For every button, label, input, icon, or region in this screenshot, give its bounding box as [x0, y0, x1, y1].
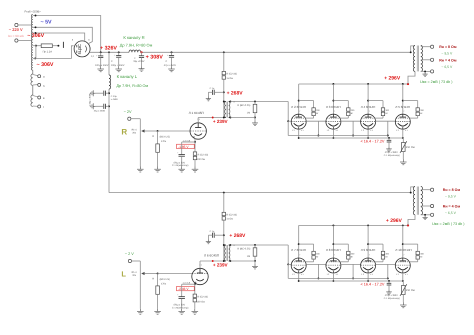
svg-text:-1,85 V: -1,85 V [178, 145, 189, 149]
wire B+ rail +326V/+308V [90, 51, 411, 53]
svg-text:< 16.4 - 17.2V: < 16.4 - 17.2V [361, 140, 385, 144]
svg-text:7: 7 [403, 110, 404, 113]
terminal input R [128, 117, 141, 131]
potentiometer R volume 20k R [132, 128, 158, 166]
wire cathode drop &#1051; 3 [332, 129, 334, 139]
svg-text:4 1: 4 1 [336, 273, 339, 276]
svg-text:R (ВС-0.25): R (ВС-0.25) [237, 247, 250, 250]
terminal heater g [33, 105, 44, 109]
svg-text:1М: 1М [247, 255, 250, 258]
rheostat cathode 150 Om R [400, 138, 415, 159]
svg-text:C-1 М(неполяр): C-1 М(неполяр) [172, 164, 189, 167]
tube output &#1051; 10 6П14П [395, 225, 411, 275]
resistor R anode supply dropper R [222, 52, 237, 101]
interstage transformer R [223, 101, 236, 119]
resistor screen grid 300 Ом &#1051; 9 [368, 244, 390, 262]
tube output &#1051; 2 6П14П [291, 84, 306, 132]
svg-text:150 Ом: 150 Ом [406, 289, 415, 292]
svg-text:К каналу R: К каналу R [123, 35, 144, 40]
wire secondary tap 4 Om R [421, 59, 431, 61]
svg-text:C 1µ: C 1µ [210, 87, 215, 90]
svg-text:~ 2V: ~ 2V [124, 110, 132, 114]
wire grid chain after &#1051; 8 [341, 264, 361, 279]
wire HV winding lower end loop to rectifier anode 2 [33, 44, 74, 59]
terminal mains input ~220V lower [15, 39, 32, 42]
terminal output common L [431, 213, 434, 216]
terminal output common R [431, 70, 434, 73]
ground cathode resistor L [192, 309, 199, 315]
svg-text:-2,46 V: -2,46 V [178, 287, 189, 291]
ground rheostat R [400, 159, 407, 165]
svg-text:Вт: Вт [420, 256, 422, 259]
svg-text:R1-4: R1-4 [132, 128, 138, 131]
capacitor C5 33u 450V L filter [89, 93, 110, 113]
capacitor C3 47u 450V [164, 52, 177, 72]
svg-text:1 3: 1 3 [396, 273, 399, 276]
wire secondary tap 8 Om L [421, 189, 431, 191]
svg-text:1 3: 1 3 [292, 273, 295, 276]
svg-text:+ 296V: + 296V [386, 218, 403, 224]
label cap value R [172, 161, 189, 167]
svg-text:470µ х 350V: 470µ х 350V [385, 151, 398, 154]
svg-text:C 33µ: C 33µ [111, 95, 118, 98]
wire cathode drop &#1051; 8 [332, 273, 334, 282]
ground output cathode cap R [386, 147, 392, 152]
svg-text:100 Ом: 100 Ом [197, 158, 206, 161]
svg-text:R1-4: R1-4 [132, 271, 138, 274]
svg-text:C-1 М(неполяр): C-1 М(неполяр) [384, 154, 400, 157]
ground grid leak 1M L [252, 264, 258, 269]
capacitor C4 33u 450V L filter [91, 90, 118, 101]
resistor cathode 100 Om R [193, 142, 208, 167]
resistor screen grid 300 Ом &#1051; 8 [333, 244, 355, 262]
output transformer R [408, 46, 422, 85]
svg-text:4 1: 4 1 [301, 273, 304, 276]
svg-text:х 450В: х 450В [111, 98, 118, 101]
capacitor C1 100u 450V [95, 52, 109, 72]
wire cathode drop &#1051; 9 [367, 273, 369, 282]
wire grid chain after &#1051; 2 [306, 121, 326, 136]
svg-text:+ 268V: + 268V [229, 233, 246, 239]
svg-text:Л 6 6С45П: Л 6 6С45П [204, 254, 219, 258]
svg-text:+ 239V: + 239V [213, 263, 229, 268]
node +268V with decoupling cap L [208, 230, 224, 240]
svg-text:C 1µ: C 1µ [210, 230, 215, 233]
svg-text:Вт: Вт [420, 112, 422, 115]
capacitor cathode bypass 470u 50V R [177, 142, 195, 167]
wire grid bus L [288, 277, 388, 279]
svg-text:1 3: 1 3 [292, 129, 295, 132]
ground 470k R [154, 167, 161, 173]
wire grid chain after &#1051; 4 [376, 121, 396, 136]
wire driver cathode L [183, 282, 196, 286]
resistor cathode 100 Om L [193, 284, 208, 309]
wire secondary tap common R [421, 70, 431, 72]
svg-text:1 3: 1 3 [327, 273, 330, 276]
resistor R anode supply dropper L [222, 193, 237, 245]
svg-text:Л 7 6П14П: Л 7 6П14П [291, 248, 306, 252]
svg-text:Л 9 6П14П: Л 9 6П14П [361, 248, 376, 252]
wire cathode drop &#1051; 2 [298, 129, 300, 139]
wire secondary tap common L [421, 214, 431, 216]
svg-text:Ртаб <350В>: Ртаб <350В> [25, 11, 42, 14]
svg-text:4 1: 4 1 [405, 129, 408, 132]
resistor R grid leak 470k R [152, 131, 170, 167]
ground decoupling cap L [206, 239, 211, 243]
wire driver plate to interstage L [200, 260, 224, 268]
svg-text:7: 7 [299, 254, 300, 257]
wire interstage secondary top to output grids R [230, 101, 291, 136]
tube driver &#1051; 1 6С45П [189, 111, 207, 139]
choke Dr2 7.9H L channel [109, 75, 111, 89]
ground grid leak 1M R [252, 121, 258, 126]
svg-text:+ 296V: + 296V [384, 75, 401, 81]
tube output &#1051; 3 6П14П [326, 84, 341, 132]
svg-text:г: г [43, 105, 44, 109]
wire grid chain after &#1051; 9 [376, 264, 396, 279]
svg-text:~ 220 V: ~ 220 V [9, 27, 23, 32]
svg-text:~ 9,5 V: ~ 9,5 V [441, 52, 453, 56]
wire driver plate to interstage R [198, 117, 224, 123]
node +268V with decoupling cap R [208, 87, 224, 97]
svg-text:+ 326V: + 326V [100, 45, 117, 51]
terminal heater a [33, 75, 45, 79]
svg-text:Вт: Вт [316, 112, 318, 115]
wire cathode bus L [299, 280, 404, 282]
capacitor cathode bypass 470u 50V L [177, 284, 195, 309]
terminal heater v [33, 96, 45, 100]
capacitor C2 100u 450V [111, 52, 125, 72]
wire branch to L channel choke [108, 52, 110, 192]
resistor screen grid 300 Ом &#1051; 3 [333, 101, 355, 119]
capacitor C6 33u 315V [133, 51, 145, 71]
ground cathode resistor R [192, 167, 199, 173]
svg-text:Л 2 6П14П: Л 2 6П14П [291, 105, 306, 109]
svg-text:+ 268V: + 268V [227, 90, 244, 96]
terminal output 8 Om R [431, 45, 434, 48]
tube output &#1051; 7 6П14П [291, 225, 306, 275]
svg-text:~ 2 V: ~ 2 V [125, 252, 134, 256]
svg-text:Л 10 6П14П: Л 10 6П14П [395, 248, 411, 252]
svg-text:470µ х 50V: 470µ х 50V [173, 304, 185, 307]
rectifier tube V1 5Ц3С [72, 38, 95, 58]
label cathode voltage box R [177, 144, 195, 149]
output transformer L [408, 187, 423, 226]
svg-text:7: 7 [369, 254, 370, 257]
svg-text:К каналу L: К каналу L [117, 74, 138, 79]
choke Dr1 7.9H R channel [129, 50, 141, 52]
terminal output 4 Om L [431, 204, 434, 207]
svg-text:4 1: 4 1 [370, 129, 373, 132]
svg-text:L: L [121, 269, 126, 278]
wire cathode drop &#1051; 4 [367, 129, 369, 139]
svg-text:R (С2-33): R (С2-33) [197, 296, 208, 299]
wire secondary tap 4 Om L [421, 205, 431, 207]
ground pot L [137, 309, 144, 315]
svg-text:2 1: 2 1 [197, 118, 200, 121]
resistor screen grid 300 Ом &#1051; 4 [368, 101, 390, 119]
ground output secondary L [422, 215, 427, 219]
svg-text:~ 5V: ~ 5V [41, 20, 53, 26]
wire L channel B+ bus [109, 192, 411, 194]
wire 5V winding top to rectifier filament / B+ node [33, 15, 101, 53]
terminal mains input ~220V upper [15, 23, 32, 26]
svg-text:R (С2-33): R (С2-33) [226, 213, 237, 216]
svg-text:Uвх = 2мВ ( 73 db ): Uвх = 2мВ ( 73 db ) [420, 80, 452, 84]
rheostat cathode 150 Om L [400, 281, 415, 302]
svg-text:1 3: 1 3 [327, 129, 330, 132]
terminal output 8 Om L [431, 188, 434, 191]
svg-text:+ 33µ х 450В: + 33µ х 450В [89, 93, 92, 107]
svg-text:7: 7 [369, 110, 370, 113]
svg-text:470µ х 350V: 470µ х 350V [385, 294, 398, 297]
wire interstage secondary top to output grids L [230, 244, 291, 278]
ground 470k L [154, 309, 161, 315]
wire grid input R [157, 130, 191, 132]
svg-text:Л 8 6П14П: Л 8 6П14П [326, 248, 341, 252]
wire grid chain after &#1051; 7 [306, 264, 326, 279]
svg-text:~ 306V: ~ 306V [37, 62, 54, 68]
wire HV winding upper end to rectifier anode [33, 32, 85, 41]
label cathode voltage box L [177, 286, 195, 291]
svg-text:4 1: 4 1 [370, 273, 373, 276]
svg-text:1М: 1М [247, 112, 250, 115]
svg-text:~ 9,5 V: ~ 9,5 V [445, 195, 457, 199]
svg-text:C-1 М(неполяр): C-1 М(неполяр) [172, 306, 189, 309]
tube output &#1051; 4 6П14П [361, 84, 376, 132]
resistor grid leak 1M R [230, 102, 256, 121]
svg-text:Др 7.9Н, R=80 Ом: Др 7.9Н, R=80 Ом [120, 42, 153, 47]
svg-text:100 Ом: 100 Ом [197, 300, 206, 303]
wire cathode drop &#1051; 10 [402, 273, 404, 282]
svg-text:33µ +315V: 33µ +315V [133, 60, 145, 63]
svg-text:Л 5 6П14П: Л 5 6П14П [395, 105, 410, 109]
svg-text:+ 308V: + 308V [146, 54, 164, 60]
svg-text:Л 3 6П14П: Л 3 6П14П [326, 105, 341, 109]
svg-text:4 1: 4 1 [336, 129, 339, 132]
svg-text:47µ х 450V: 47µ х 450V [164, 64, 177, 67]
resistor screen grid 300 Ом &#1051; 7 [299, 244, 321, 262]
svg-text:R (С2-33): R (С2-33) [198, 153, 209, 156]
svg-text:Др 7.9Н, R=80 Ом: Др 7.9Н, R=80 Ом [116, 84, 148, 88]
wire secondary tap 8 Om R [421, 46, 431, 48]
svg-text:+ 239V: + 239V [213, 119, 229, 124]
svg-text:Вт: Вт [386, 256, 388, 259]
svg-text:Rн = 4 Ом: Rн = 4 Ом [443, 205, 461, 209]
tube output &#1051; 5 6П14П [395, 84, 410, 132]
svg-text:1 3: 1 3 [396, 129, 399, 132]
wire cathode drop &#1051; 7 [298, 273, 300, 282]
svg-text:7: 7 [334, 110, 335, 113]
svg-text:< 16.4 - 17.2V: < 16.4 - 17.2V [361, 283, 385, 287]
terminal heater b [33, 83, 45, 87]
ground cathode cap L [178, 309, 185, 315]
wire grid chain after &#1051; 3 [341, 121, 361, 136]
svg-text:C-1 М(неполяр): C-1 М(неполяр) [384, 297, 400, 300]
ground decoupling cap R [206, 97, 211, 101]
svg-text:Вт: Вт [316, 256, 318, 259]
wire +296V plate bus L [299, 224, 409, 226]
svg-text:~ 6,5 V: ~ 6,5 V [441, 65, 453, 69]
wire grid input L [157, 273, 193, 275]
resistor screen grid 300 Ом &#1051; 2 [299, 101, 321, 119]
wire +296V plate bus R [299, 83, 409, 85]
svg-text:1к Ом: 1к Ом [226, 77, 233, 80]
svg-text:Л 4 6П14П: Л 4 6П14П [361, 105, 376, 109]
svg-text:Л 1 6С45П: Л 1 6С45П [189, 111, 204, 115]
svg-text:5Ц3С: 5Ц3С [77, 44, 82, 54]
svg-text:150 Ом: 150 Ом [406, 146, 415, 149]
wire grid bus R [288, 135, 388, 137]
transformer T1 power transformer Ртаб <350В> [25, 11, 42, 107]
wire 5V winding bottom to rectifier filament [33, 26, 93, 43]
svg-text:Rн = 8 Ом: Rн = 8 Ом [439, 45, 457, 49]
svg-text:7: 7 [334, 254, 335, 257]
tube output &#1051; 8 6П14П [326, 225, 341, 275]
svg-text:1 3: 1 3 [361, 273, 364, 276]
svg-text:Uвх = 2мВ ( 73 db ): Uвх = 2мВ ( 73 db ) [432, 222, 464, 226]
capacitor cathode bypass 470u 350V L [384, 280, 400, 300]
svg-text:100µ х 450V: 100µ х 450V [95, 64, 109, 67]
svg-text:470µ х 50V: 470µ х 50V [173, 161, 185, 164]
capacitor cathode bypass 470u 350V R [384, 137, 400, 157]
interstage transformer L [223, 244, 236, 262]
svg-text:1 3: 1 3 [361, 129, 364, 132]
svg-text:(ВС-0.25): (ВС-0.25) [160, 135, 170, 138]
svg-text:2 1: 2 1 [199, 264, 202, 267]
ground rheostat L [400, 302, 407, 308]
svg-text:Rн = 8 Ом: Rн = 8 Ом [443, 188, 461, 192]
ground output cathode cap L [386, 290, 392, 295]
ground cathode cap R [178, 167, 185, 173]
svg-text:(ВС-0.25): (ВС-0.25) [160, 278, 170, 281]
svg-text:1к Ом: 1к Ом [226, 218, 233, 221]
label cap value L [172, 304, 189, 310]
wire cathode bus R [299, 137, 404, 139]
svg-text:Вт: Вт [351, 256, 353, 259]
potentiometer R volume 20k L [132, 271, 158, 309]
svg-text:7: 7 [403, 254, 404, 257]
svg-text:R (С2-33): R (С2-33) [226, 73, 237, 76]
svg-text:33µ х 450В: 33µ х 450В [94, 110, 106, 113]
svg-text:4 1: 4 1 [301, 129, 304, 132]
svg-text:Вт: Вт [351, 112, 353, 115]
svg-text:R: R [121, 127, 127, 136]
resistor grid leak 1M L [230, 245, 256, 264]
resistor screen grid 300 Ом &#1051; 5 [403, 101, 425, 119]
svg-text:Пр 1.2А: Пр 1.2А [43, 51, 53, 54]
ground pot R [137, 167, 144, 173]
svg-text:100µ + 450V: 100µ + 450V [111, 64, 125, 67]
ground output secondary R [422, 72, 427, 76]
wire driver cathode R [183, 139, 196, 143]
tube driver &#1051; 6 6С45П [192, 254, 219, 285]
svg-text:Iхх = 90 мА: Iхх = 90 мА [8, 34, 25, 38]
svg-text:7: 7 [299, 110, 300, 113]
svg-text:~ 6,5 V: ~ 6,5 V [445, 211, 457, 215]
tube output &#1051; 9 6П14П [361, 225, 376, 275]
svg-text:Rн = 4 Ом: Rн = 4 Ом [439, 58, 457, 62]
fuse Пр 1.2А [33, 42, 64, 54]
terminal output 4 Om R [431, 58, 434, 61]
terminal input L [128, 259, 140, 273]
resistor screen grid 300 Ом &#1051; 10 [403, 244, 425, 262]
svg-text:Вт: Вт [386, 112, 388, 115]
wire cathode drop &#1051; 5 [402, 129, 404, 139]
svg-text:R (ВС-0.25): R (ВС-0.25) [237, 104, 250, 107]
resistor R grid leak 470k L [152, 274, 170, 309]
svg-text:4 1: 4 1 [405, 273, 408, 276]
